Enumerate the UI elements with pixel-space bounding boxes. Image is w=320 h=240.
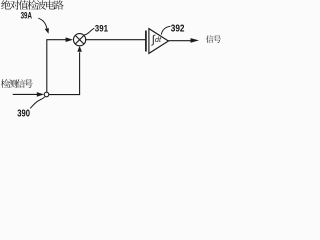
wire: multiplier output to integrator xyxy=(86,39,146,41)
svg-text:392: 392 xyxy=(171,24,185,35)
leader from node to label 390 xyxy=(30,97,45,109)
integrator 392 triangle xyxy=(149,29,169,54)
integrator 392 input bar xyxy=(145,31,147,52)
wire: node right branch to multiplier bottom input xyxy=(49,52,80,94)
label 检测信号 xyxy=(1,79,33,88)
wire: integrator output with arrow xyxy=(168,40,191,42)
multiplier 391 (circle with X) xyxy=(74,34,86,46)
wire: input arrow into node 390 xyxy=(13,93,38,95)
leader arrow from 39A to circuit xyxy=(38,18,47,28)
leader from multiplier to label 391 xyxy=(84,28,95,35)
node 390 junction circle xyxy=(44,92,49,97)
wire: node up-left branch to multiplier left input xyxy=(47,40,67,92)
label 信号 output signal xyxy=(206,35,221,43)
svg-text:39A: 39A xyxy=(21,10,32,21)
label: circuit title 绝对值检波电路 xyxy=(1,0,63,10)
svg-text:391: 391 xyxy=(95,24,108,34)
svg-text:390: 390 xyxy=(17,109,30,120)
leader from integrator to label 392 xyxy=(161,26,170,34)
svg-text:∫dt: ∫dt xyxy=(151,34,162,46)
